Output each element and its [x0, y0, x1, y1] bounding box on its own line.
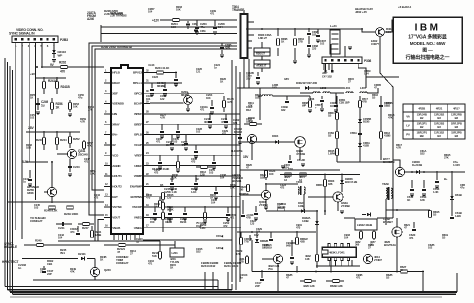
capacitor C361	[194, 29, 198, 31]
svg-text:223: 223	[312, 47, 317, 51]
svg-text:75A: 75A	[268, 267, 273, 271]
svg-text:1K: 1K	[30, 96, 33, 100]
svg-text:13V◀: 13V◀	[216, 246, 224, 250]
svg-text:472: 472	[223, 224, 228, 228]
diode D306	[341, 175, 343, 193]
capacitor C307	[317, 29, 319, 34]
capacitor C5BA	[358, 132, 362, 134]
capacitor C2123	[159, 241, 161, 250]
svg-text:L201: L201	[172, 251, 179, 255]
wire T304 right taps	[248, 21, 255, 23]
svg-text:1u: 1u	[41, 103, 45, 107]
svg-text:19: 19	[146, 203, 149, 207]
svg-text:HDRIVE: HDRIVE	[239, 192, 249, 196]
IC U201 right pin 31 VNEG	[143, 216, 150, 218]
svg-text:1K: 1K	[262, 246, 265, 250]
capacitor C251	[213, 155, 215, 161]
svg-text:103: 103	[173, 140, 178, 144]
svg-text:R243: R243	[36, 138, 43, 142]
capacitor C61B	[451, 210, 453, 216]
junction far right	[411, 171, 413, 173]
svg-text:BPV13: BPV13	[133, 71, 142, 75]
resistor R241c	[91, 226, 93, 232]
transistor Q302	[376, 28, 385, 37]
svg-text:10K: 10K	[73, 105, 78, 109]
wire drop 352	[351, 260, 353, 266]
svg-text:15V: 15V	[243, 155, 249, 159]
wire Q241 base	[57, 153, 68, 155]
IC U201 right pin 32 UNEG	[143, 227, 150, 229]
capacitor C208	[214, 20, 216, 26]
svg-text:84B: 84B	[286, 244, 291, 248]
junction q302	[361, 28, 363, 30]
svg-text:+9V: +9V	[30, 72, 35, 76]
svg-text:D304: D304	[272, 134, 279, 138]
transistor Q242	[47, 187, 56, 196]
svg-text:VOUT: VOUT	[112, 216, 120, 220]
capacitor C302	[239, 128, 241, 136]
transistor Q304 H-OUT	[333, 192, 343, 202]
junction row dots	[175, 72, 177, 74]
svg-text:VNAB: VNAB	[112, 226, 121, 230]
wire 8.2V	[26, 161, 48, 163]
IC U903 top pins	[328, 244, 330, 248]
capacitor C328	[291, 248, 293, 256]
box L903	[355, 219, 377, 230]
IC U201 right pin 21 BPEF	[143, 113, 150, 115]
capacitor D3B3	[379, 104, 383, 106]
wire Q242 base	[44, 191, 48, 193]
wire L903 top	[344, 217, 355, 219]
ground caps above	[281, 165, 285, 167]
wire column x381	[380, 96, 382, 160]
wire right mid link	[386, 209, 430, 211]
svg-text:VSYNC: VSYNC	[112, 205, 123, 209]
svg-text:104: 104	[148, 10, 153, 14]
wire y232 row	[237, 231, 316, 233]
IC U201 left pin 3 XDF	[104, 92, 111, 94]
svg-text:471: 471	[356, 276, 361, 280]
svg-text:T62B: T62B	[382, 182, 389, 186]
svg-text:BREF: BREF	[134, 122, 142, 126]
svg-text:R3103: R3103	[234, 130, 242, 134]
transistor Q241	[67, 149, 76, 158]
ground near P308	[348, 46, 352, 48]
svg-text:14: 14	[105, 203, 108, 207]
svg-text:47K: 47K	[248, 104, 253, 108]
svg-text:15V◀: 15V◀	[216, 234, 224, 238]
IC U201 right pin 25 VREF	[143, 154, 150, 156]
svg-text:DISABLE: DISABLE	[4, 245, 17, 249]
wire u903 bottom bus	[316, 265, 360, 267]
wire 423 corner	[422, 272, 424, 293]
svg-text:47u: 47u	[78, 96, 83, 100]
wire hstage bottom	[266, 210, 280, 212]
junction hstage	[265, 183, 267, 185]
junction left col	[43, 77, 45, 79]
resistor R245	[37, 244, 44, 247]
resistor R2123	[159, 250, 161, 260]
svg-text:L9622 41HB: L9622 41HB	[357, 223, 372, 227]
svg-text:R241B: R241B	[61, 85, 71, 89]
svg-text:C4? 1B2: C4? 1B2	[322, 75, 332, 79]
capacitor C620	[413, 222, 415, 228]
wire protect row2	[22, 258, 78, 260]
resistor R253	[69, 100, 71, 112]
IC U201 left pin 7 BV+	[104, 134, 111, 136]
svg-text:182: 182	[281, 108, 286, 112]
IC U201 left pin 1 HFLB	[104, 72, 111, 74]
svg-text:1B2: 1B2	[196, 250, 201, 254]
wire vidta down	[100, 25, 102, 42]
svg-text:27: 27	[146, 120, 149, 124]
diode D3B20	[256, 232, 258, 238]
resistor R66B	[309, 96, 311, 100]
wire pin22 row	[150, 123, 240, 125]
svg-text:1.BR4: 1.BR4	[328, 152, 336, 156]
wire T304 bottom	[243, 58, 245, 88]
border frame line 2	[7, 62, 9, 290]
svg-text:D2101: D2101	[78, 252, 86, 256]
resistor R244	[56, 132, 58, 150]
svg-text:471: 471	[221, 120, 226, 124]
resistor R31B	[162, 193, 165, 200]
wire trim drop 3	[227, 272, 229, 290]
svg-text:1K: 1K	[281, 40, 284, 44]
wire right rail drop	[451, 172, 453, 210]
inductor L307	[360, 92, 367, 93]
wire top row 3	[101, 33, 237, 35]
svg-text:43B: 43B	[300, 240, 305, 244]
svg-text:R252: R252	[73, 137, 80, 141]
capacitor row C74x 2	[169, 207, 171, 212]
capacitor C246	[195, 176, 197, 182]
capacitor C267	[186, 23, 190, 25]
svg-text:R22B 230B TRANSB1B: R22B 230B TRANSB1B	[101, 45, 133, 49]
wire R363 down	[261, 68, 263, 72]
svg-text:TRANSF: TRANSF	[232, 8, 244, 12]
svg-text:B3: B3	[455, 134, 459, 138]
capacitor C224	[174, 78, 178, 80]
resistor R248	[49, 206, 56, 209]
svg-text:BPC3: BPC3	[134, 91, 142, 95]
svg-text:R245: R245	[35, 239, 42, 243]
diode D903	[367, 213, 370, 216]
capacitor row C74x 3	[184, 207, 186, 212]
svg-text:11: 11	[105, 172, 108, 176]
wire heater rail	[330, 29, 376, 32]
wire pin23 row	[150, 134, 240, 136]
svg-text:HIN: HIN	[112, 112, 117, 116]
wire T628 down	[385, 199, 387, 225]
svg-text:23: 23	[146, 161, 149, 165]
resistor R51x	[359, 101, 362, 108]
svg-text:H-DRIVE: H-DRIVE	[231, 149, 243, 153]
capacitor C315	[289, 155, 291, 160]
svg-text:104: 104	[218, 25, 223, 29]
wire trim drop 2	[212, 272, 214, 290]
svg-text:4326 1.2K: 4326 1.2K	[303, 284, 316, 288]
svg-text:P308: P308	[364, 59, 371, 63]
diode D302	[305, 86, 308, 89]
wire trim drop 4	[235, 272, 237, 290]
IC U201 left pin 14 VSYNC	[104, 206, 111, 208]
svg-text:473: 473	[146, 196, 151, 200]
resistor R3B22	[296, 232, 298, 238]
capacitor C36B	[221, 43, 223, 46]
svg-text:21: 21	[146, 182, 149, 186]
svg-text:BB: BB	[420, 134, 424, 138]
wire 393 vertical lower	[392, 160, 394, 218]
svg-text:104: 104	[330, 104, 335, 108]
inductor L303	[323, 92, 330, 93]
svg-text:474: 474	[70, 230, 75, 234]
svg-text:10K: 10K	[230, 186, 235, 190]
svg-text:2.2K TRANSIS: 2.2K TRANSIS	[110, 14, 127, 18]
svg-text:HOUT1: HOUT1	[112, 174, 122, 178]
svg-text:B?16B?: B?16B?	[383, 220, 393, 224]
wire bottom drop 297	[296, 266, 298, 272]
resistor R312s	[196, 166, 212, 168]
svg-text:B+: B+	[444, 177, 448, 181]
capacitor C249	[37, 98, 39, 110]
svg-text:471: 471	[210, 12, 215, 16]
IC U201 left pin 11 HOUT1	[104, 175, 111, 177]
transistor Q240	[90, 267, 99, 276]
svg-text:9V: 9V	[50, 63, 55, 67]
resistor R6B4	[336, 113, 339, 120]
svg-text:1.8K 27: 1.8K 27	[258, 36, 267, 40]
svg-text:366: 366	[355, 243, 360, 247]
wire bdrive row	[240, 141, 295, 143]
transistor Q203	[184, 96, 193, 105]
svg-text:B3: B3	[437, 116, 441, 120]
svg-text:102: 102	[30, 116, 35, 120]
transistor Q906	[273, 254, 282, 263]
resistor R249	[67, 206, 74, 209]
resistor R224	[150, 72, 168, 74]
resistor R932	[316, 232, 318, 268]
svg-text:102: 102	[428, 246, 433, 250]
svg-text:47u: 47u	[460, 186, 465, 190]
svg-text:5: 5	[105, 110, 107, 114]
svg-text:17”VGA 多频彩显: 17”VGA 多频彩显	[408, 34, 447, 41]
svg-text:4: 4	[105, 99, 107, 103]
capacitor C304A	[77, 226, 79, 232]
capacitor C204	[211, 100, 213, 106]
IC U201 right pin 20 BCAP	[143, 103, 150, 105]
wire mid rail y174	[280, 174, 360, 176]
svg-text:41BB: 41BB	[384, 134, 391, 138]
capacitor C30B	[286, 96, 288, 100]
svg-text:47: 47	[136, 240, 139, 244]
svg-text:1u: 1u	[23, 180, 26, 184]
IC U201 right pin 29 ENTPNS	[143, 196, 150, 198]
wire Q302 right	[384, 20, 398, 32]
capacitor C313	[242, 200, 244, 214]
IBM title box	[393, 17, 462, 63]
svg-text:27B: 27B	[298, 40, 303, 44]
wire T304 top	[243, 10, 245, 14]
wire Q30B down	[299, 147, 301, 160]
svg-text:VCO: VCO	[112, 153, 119, 157]
resistor R363 parallel box	[261, 42, 263, 48]
svg-text:28V: 28V	[28, 126, 34, 130]
svg-text:ENTPNS: ENTPNS	[131, 195, 142, 199]
svg-text:C243: C243	[73, 165, 80, 169]
svg-text:BV+: BV+	[112, 133, 118, 137]
capacitor C322	[255, 206, 257, 212]
IC U201 right pin 23 BPLB	[143, 134, 150, 136]
svg-text:Q240: Q240	[104, 268, 111, 272]
wire pin30 row	[150, 206, 240, 208]
svg-text:B4C1T-2B: B4C1T-2B	[345, 180, 357, 184]
svg-text:CONN-2T: CONN-2T	[116, 261, 129, 265]
svg-text:471: 471	[84, 160, 89, 164]
svg-text:1n: 1n	[214, 66, 217, 70]
svg-text:4R1?: 4R1?	[453, 107, 460, 111]
wire Q242 collector up	[51, 162, 53, 188]
resistor R243	[43, 132, 45, 150]
diode D618	[416, 170, 419, 173]
svg-text:B3: B3	[437, 134, 441, 138]
junction bottom	[277, 271, 279, 273]
wire Q303 collector to T303	[266, 184, 298, 190]
wire pin24 row	[150, 144, 240, 146]
wire Q622 drain	[396, 218, 398, 227]
wire Q611 top	[393, 160, 400, 167]
svg-text:1B1: 1B1	[246, 120, 251, 124]
svg-text:103: 103	[206, 96, 211, 100]
capacitor C241b	[225, 114, 227, 120]
capacitor C345	[151, 83, 153, 88]
svg-text:15: 15	[105, 213, 108, 217]
svg-text:47K: 47K	[87, 144, 92, 148]
svg-text:XDF: XDF	[112, 91, 118, 95]
junction bus dots	[231, 113, 233, 115]
svg-text:UREF: UREF	[134, 164, 142, 168]
capacitor C613	[423, 180, 425, 188]
svg-text:32: 32	[146, 68, 149, 72]
svg-text:7: 7	[105, 130, 107, 134]
svg-text:4R21: 4R21	[436, 107, 443, 111]
wire vertical bus 3	[239, 72, 241, 282]
svg-text:B2: B2	[455, 116, 459, 120]
svg-text:1B: 1B	[328, 114, 331, 118]
inductor L30B coil	[262, 95, 272, 96]
svg-text:1K: 1K	[220, 80, 223, 84]
wire after L307	[367, 88, 378, 93]
svg-text:12B: 12B	[200, 173, 205, 177]
svg-text:150: 150	[150, 220, 155, 224]
transistor Q301	[247, 134, 256, 143]
capacitor row C74x 1	[154, 207, 156, 212]
svg-text:1B: 1B	[160, 183, 163, 187]
svg-text:2T4NB: 2T4NB	[341, 204, 350, 208]
diode D2101	[81, 257, 84, 260]
IC U201 left pin 2 EDAV	[104, 82, 111, 84]
wire Q240 down	[94, 277, 96, 280]
svg-text:99.9K: 99.9K	[167, 208, 174, 212]
svg-text:24P: 24P	[47, 272, 52, 276]
IC U201 right pin 17 BPV13	[143, 72, 150, 74]
svg-text:VSCOP: VSCOP	[132, 205, 142, 209]
svg-text:17B: 17B	[167, 220, 172, 224]
IC U903 LF347	[322, 247, 356, 257]
capacitor C245	[171, 176, 173, 182]
svg-text:148: 148	[305, 257, 310, 261]
svg-text:R12: R12	[246, 108, 251, 112]
wire vertical bus 1	[231, 60, 233, 282]
svg-text:WP: WP	[58, 53, 63, 57]
transistor Q611	[395, 167, 404, 176]
svg-text:1B: 1B	[372, 96, 375, 100]
svg-text:104: 104	[58, 236, 63, 240]
svg-text:27K: 27K	[444, 156, 449, 160]
capacitor C233	[215, 186, 217, 191]
resistor R41B	[336, 149, 339, 156]
ground below D2103	[52, 59, 56, 61]
svg-text:+12V: +12V	[152, 19, 160, 23]
svg-text:UNEG: UNEG	[134, 226, 143, 230]
svg-text:2SC945: 2SC945	[78, 152, 88, 156]
svg-text:472: 472	[280, 186, 285, 190]
svg-text:4.7K: 4.7K	[396, 146, 401, 150]
capacitor C213	[249, 235, 251, 241]
svg-text:1B R34B 23.9K: 1B R34B 23.9K	[152, 167, 169, 171]
capacitor C368	[308, 29, 310, 32]
svg-text:77B: 77B	[244, 240, 249, 244]
wire top row 2	[101, 27, 237, 42]
svg-text:图 —: 图 —	[422, 47, 433, 54]
wire mid vertical 260	[259, 88, 261, 120]
svg-text:XRAY: XRAY	[112, 122, 120, 126]
svg-text:C223: C223	[152, 75, 159, 79]
wire Q622 source	[396, 237, 398, 272]
svg-text:R224 41.1K: R224 41.1K	[155, 66, 170, 70]
resistor R952	[360, 230, 362, 240]
svg-text:22: 22	[146, 172, 149, 176]
svg-text:行输出扫描电路之一: 行输出扫描电路之一	[405, 54, 450, 61]
capacitor C243	[69, 159, 71, 172]
svg-text:4.7K: 4.7K	[80, 120, 85, 124]
junction right mid	[396, 209, 398, 211]
svg-text:D61B: D61B	[455, 193, 462, 197]
diode D304	[275, 140, 278, 143]
capacitor C263	[196, 20, 198, 26]
svg-text:9: 9	[105, 151, 107, 155]
wire pin32 row	[150, 227, 240, 229]
wire B+ rail	[237, 87, 300, 89]
svg-text:10K: 10K	[172, 176, 177, 180]
wire pin31 row	[150, 216, 228, 218]
svg-text:PV: PV	[406, 133, 410, 137]
border frame line 1	[4, 58, 6, 287]
wire pin26 row	[150, 165, 240, 167]
transformer T303	[298, 187, 299, 194]
svg-text:R63B 1.8K: R63B 1.8K	[330, 284, 344, 288]
svg-text:47K: 47K	[70, 270, 75, 274]
svg-text:24: 24	[146, 151, 149, 155]
resistor R230	[177, 155, 179, 162]
resistor R322	[247, 184, 249, 192]
transformer T628	[386, 188, 387, 198]
IC U201 left pin 15 VOUT	[104, 216, 111, 218]
wire pin28 row	[150, 185, 240, 187]
wire Q304 row	[308, 196, 333, 198]
svg-text:J302 +45: J302 +45	[355, 10, 367, 14]
svg-text:BU2713A: BU2713A	[384, 243, 397, 247]
